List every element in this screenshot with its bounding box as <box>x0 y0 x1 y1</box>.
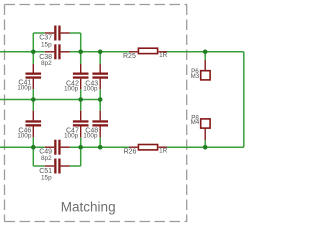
wire bottom bypass right vertical <box>80 147 82 166</box>
P8 pad square <box>201 119 210 128</box>
C42 plates <box>73 73 89 75</box>
junction bus3 col B <box>78 145 83 150</box>
C37 plates <box>54 26 56 41</box>
C47 leads <box>80 111 82 138</box>
junction bus1 col C <box>98 50 103 55</box>
junction bus3 col A <box>31 145 36 150</box>
capacitor C42 <box>64 64 89 92</box>
C51 leads <box>45 165 70 167</box>
svg-text:8p2: 8p2 <box>41 60 52 67</box>
R25 leads <box>129 51 167 53</box>
C49 leads <box>45 146 70 148</box>
capacitor C48 <box>83 111 108 140</box>
capacitor C38 <box>39 44 70 67</box>
svg-text:8p2: 8p2 <box>41 155 52 162</box>
resistor R26 <box>124 145 168 156</box>
C49 plates <box>54 140 56 155</box>
junction bus2 col B <box>78 97 83 102</box>
wire right vertical <box>243 52 245 147</box>
junction bus2 col A <box>31 97 36 102</box>
wire C47 stubs <box>80 100 82 111</box>
R26 leads <box>129 146 167 148</box>
wire C41 stubs <box>32 52 34 64</box>
C43 plates <box>92 73 108 75</box>
P6 lead <box>204 60 206 71</box>
C48 plates <box>92 120 108 122</box>
capacitor C37 <box>39 26 70 49</box>
R25 body <box>138 48 157 53</box>
R26 body <box>138 145 157 150</box>
junction bus1 col B <box>78 50 83 55</box>
C48 leads <box>99 111 101 138</box>
capacitor C49 <box>39 140 70 162</box>
svg-text:M4: M4 <box>191 119 200 126</box>
wire top bypass horizontal <box>33 32 45 34</box>
test pad P6 <box>191 60 210 80</box>
svg-text:100p: 100p <box>64 85 79 92</box>
wire top bypass left vertical <box>32 33 34 52</box>
wire top bypass right vertical <box>80 33 82 52</box>
wire bottom bypass left vertical <box>32 147 34 166</box>
capacitor C43 <box>83 64 108 92</box>
wire P8 stub <box>204 140 206 147</box>
C38 leads <box>45 51 70 53</box>
C47 plates <box>73 120 89 122</box>
resistor R25 <box>123 48 168 60</box>
capacitor C51 <box>39 159 70 182</box>
C46 leads <box>32 111 34 138</box>
wire C42 stubs <box>80 52 82 64</box>
svg-text:1R: 1R <box>159 52 168 59</box>
svg-text:100p: 100p <box>83 133 98 140</box>
svg-text:1R: 1R <box>159 147 168 154</box>
C51 plates <box>54 159 56 174</box>
svg-text:100p: 100p <box>17 133 32 140</box>
junction bus1 col A <box>31 50 36 55</box>
test pad P8 <box>191 114 210 140</box>
svg-text:15p: 15p <box>41 174 52 181</box>
C37 leads <box>45 32 70 34</box>
junction bus3 col C <box>98 145 103 150</box>
C46 plates <box>26 120 42 122</box>
wire bottom bypass horizontal <box>33 165 45 167</box>
wire C48 stubs <box>99 100 101 111</box>
wire bus1 right segment <box>167 51 244 53</box>
svg-text:R26: R26 <box>124 149 137 156</box>
wire bus3 left segment <box>0 146 45 148</box>
svg-text:Matching: Matching <box>61 199 116 214</box>
C38 plates <box>54 44 56 59</box>
P8 lead <box>204 128 206 140</box>
wire C43 stubs <box>99 52 101 64</box>
C43 leads <box>99 64 101 89</box>
wire bus1 left segment <box>0 51 45 53</box>
wire C46 stubs <box>32 100 34 111</box>
svg-text:100p: 100p <box>64 133 79 140</box>
wire P6 stub <box>204 52 206 60</box>
wire bus3 right segment <box>167 146 244 148</box>
svg-text:100p: 100p <box>17 85 32 92</box>
C41 leads <box>32 64 34 89</box>
wire bus2 <box>0 99 100 101</box>
svg-text:15p: 15p <box>41 42 52 49</box>
capacitor C46 <box>17 111 41 140</box>
junction bus1 P6 tap <box>203 50 208 55</box>
svg-text:R25: R25 <box>123 53 136 60</box>
svg-text:100p: 100p <box>83 85 98 92</box>
junction bus2 col C <box>98 97 103 102</box>
junction bus3 P8 tap <box>203 145 208 150</box>
C42 leads <box>80 64 82 89</box>
frame: dashed module boundary <box>5 5 188 222</box>
capacitor C41 <box>17 64 41 92</box>
capacitor C47 <box>64 111 89 140</box>
P6 pad square <box>201 71 210 80</box>
C41 plates <box>26 73 42 75</box>
svg-text:M3: M3 <box>191 73 200 80</box>
